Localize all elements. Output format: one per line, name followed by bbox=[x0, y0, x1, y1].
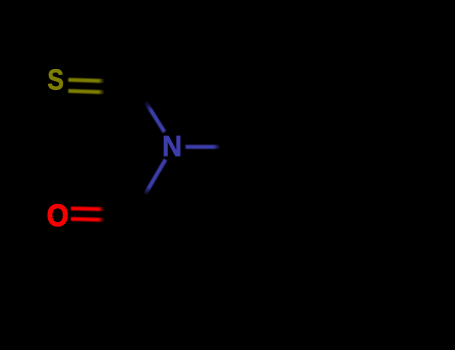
double bond S=C upper line bbox=[68, 80, 104, 81]
bond C1-N (thioformyl carbon to nitrogen) bbox=[145, 101, 165, 132]
svg-text:O: O bbox=[47, 198, 69, 233]
bond N-C2 (nitrogen to carbonyl carbon) bbox=[145, 160, 166, 195]
double bond S=C lower line bbox=[68, 91, 104, 92]
double bond C2=O lower line bbox=[71, 217, 104, 222]
svg-text:S: S bbox=[47, 64, 64, 96]
bond N-ring carbon (horizontal) bbox=[186, 145, 221, 149]
svg-text:N: N bbox=[162, 130, 182, 163]
double bond C2=O upper line bbox=[71, 206, 104, 211]
